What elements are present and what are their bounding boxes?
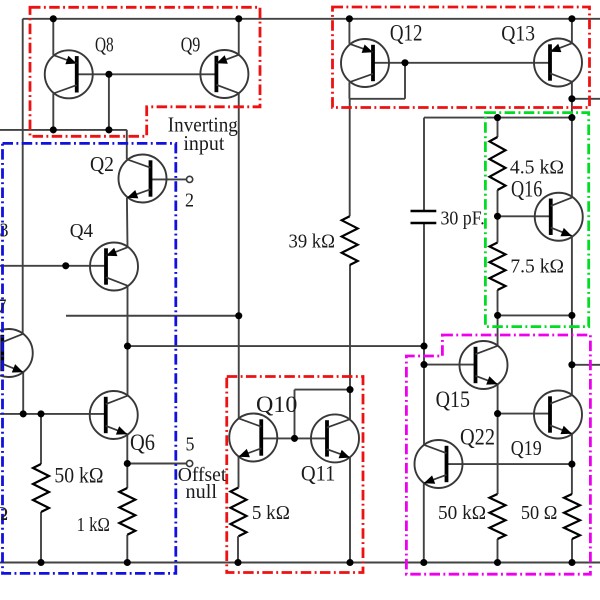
svg-text:4.5 kΩ: 4.5 kΩ xyxy=(510,156,564,178)
svg-text:5 kΩ: 5 kΩ xyxy=(252,502,290,524)
svg-text:50 kΩ: 50 kΩ xyxy=(54,463,103,487)
svg-text:Q9: Q9 xyxy=(181,35,201,57)
svg-text:50 kΩ: 50 kΩ xyxy=(438,502,486,524)
svg-text:7: 7 xyxy=(0,296,7,318)
svg-text:30 pF.: 30 pF. xyxy=(441,207,485,229)
svg-text:input: input xyxy=(183,131,224,155)
svg-text:1 kΩ: 1 kΩ xyxy=(77,515,110,536)
svg-text:Q8: Q8 xyxy=(95,35,114,57)
svg-text:Q6: Q6 xyxy=(130,430,155,455)
svg-text:Q19: Q19 xyxy=(511,436,542,460)
svg-text:Ω: Ω xyxy=(0,503,8,525)
svg-text:5: 5 xyxy=(186,434,195,456)
svg-text:2: 2 xyxy=(185,190,194,212)
svg-text:Q4: Q4 xyxy=(70,220,93,242)
svg-text:Q12: Q12 xyxy=(390,20,423,46)
svg-text:null: null xyxy=(186,481,218,503)
svg-text:Q2: Q2 xyxy=(90,152,114,176)
svg-text:50 Ω: 50 Ω xyxy=(521,502,558,524)
svg-text:Q13: Q13 xyxy=(501,20,535,45)
svg-text:39 kΩ: 39 kΩ xyxy=(289,231,336,253)
svg-text:Q10: Q10 xyxy=(256,392,297,418)
svg-text:Q22: Q22 xyxy=(460,424,495,450)
svg-text:3: 3 xyxy=(0,220,9,242)
svg-text:Q15: Q15 xyxy=(436,387,470,413)
svg-text:Q16: Q16 xyxy=(511,177,542,202)
svg-text:Q11: Q11 xyxy=(301,460,336,485)
svg-text:7.5 kΩ: 7.5 kΩ xyxy=(510,256,564,278)
